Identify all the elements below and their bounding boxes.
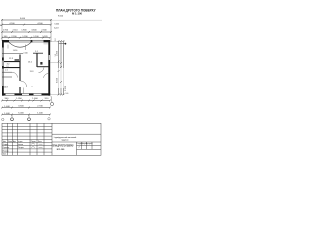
svg-text:3.300: 3.300	[65, 85, 67, 91]
svg-text:2.1: 2.1	[5, 69, 8, 71]
line B ticks	[1, 24, 52, 26]
table row labels	[3, 140, 42, 156]
closet stub line	[23, 88, 25, 94]
svg-text:Аркушів: Аркушів	[86, 142, 92, 145]
line A ticks	[1, 19, 52, 21]
dim text above line D	[4, 36, 49, 38]
svg-text:1.2: 1.2	[55, 39, 57, 42]
partition horizontal y61.5	[4, 61, 20, 62]
door hinge dot	[40, 62, 42, 65]
signature scribbles	[31, 143, 43, 147]
bottom wall pier 3	[29, 93, 34, 95]
axis bubble 2 stem	[28, 115, 30, 118]
right block line under top cell	[52, 133, 101, 135]
stage value underline	[77, 148, 102, 150]
door arc small	[39, 67, 45, 72]
partition vertical x20 lower stub	[19, 87, 20, 93]
svg-text:3.600: 3.600	[31, 30, 37, 32]
bottom wall pier 1	[2, 93, 6, 95]
extension mid from right wall	[50, 61, 60, 63]
axis bubble 1 stem	[11, 115, 13, 118]
svg-text:Підпис: Підпис	[31, 140, 36, 143]
dimension line A	[2, 19, 51, 21]
svg-text:Затв.: Затв.	[3, 154, 8, 156]
top wall pier right	[44, 40, 51, 42]
left wall pier 2	[2, 66, 4, 69]
table row lines left part	[2, 126, 52, 128]
svg-text:1.350: 1.350	[16, 98, 22, 100]
svg-text:будинок: будинок	[61, 139, 68, 141]
fixture line y72.2	[2, 71, 12, 73]
left wall window 3	[1, 69, 3, 87]
door leaf blob	[15, 59, 20, 60]
shelf line y53.5	[2, 53, 23, 55]
axis bubble 0	[2, 118, 4, 120]
svg-text:2.110: 2.110	[23, 52, 27, 54]
dimension line B	[2, 24, 51, 26]
svg-text:Кільк: Кільк	[8, 140, 12, 143]
dimension line C	[2, 31, 51, 33]
arch arc	[9, 42, 31, 47]
line D ticks	[1, 37, 51, 39]
svg-text:6.000: 6.000	[55, 24, 60, 26]
svg-text:6.000: 6.000	[56, 77, 58, 83]
line C ticks	[1, 31, 52, 33]
partition horizontal y66.5	[37, 66, 49, 67]
bottom wall pier 4	[42, 93, 51, 95]
svg-text:ПЛАН ДРУГОГО ПОВЕРХУ: ПЛАН ДРУГОГО ПОВЕРХУ	[53, 145, 74, 148]
title block table	[2, 123, 101, 155]
vertical dim line 1	[58, 41, 60, 68]
svg-text:1.600: 1.600	[32, 98, 38, 100]
svg-text:Перевір.: Перевір.	[3, 146, 10, 149]
line F ticks	[1, 107, 51, 109]
bottom dimension line F	[2, 107, 50, 109]
window label	[7, 45, 9, 49]
dim text above line B	[9, 23, 43, 25]
axis bubble right	[50, 102, 53, 105]
line E ticks	[1, 100, 51, 102]
svg-text:Розроб.: Розроб.	[3, 144, 10, 146]
dim text above line C	[3, 30, 48, 32]
svg-text:9.000: 9.000	[58, 16, 64, 18]
stage header underline	[77, 144, 102, 146]
partition vertical x37	[36, 53, 37, 67]
table column lines left part	[7, 123, 9, 155]
svg-text:Змін: Змін	[3, 140, 7, 143]
vertical dim line 2	[60, 41, 62, 68]
extension to vertical dims top	[50, 41, 65, 43]
svg-text:1.950: 1.950	[3, 30, 9, 32]
bottom dimension line G	[2, 114, 50, 116]
svg-text:—: —	[31, 86, 33, 88]
svg-text:Іванов: Іванов	[18, 144, 23, 146]
right wall window	[48, 55, 50, 60]
svg-text:Арк: Арк	[13, 140, 16, 143]
extension to vertical dims bottom	[50, 94, 65, 96]
svg-text:2.110: 2.110	[12, 30, 18, 32]
svg-text:М 1:100: М 1:100	[72, 12, 83, 15]
svg-text:Дата: Дата	[38, 141, 42, 143]
bottom wall pier 2	[15, 93, 23, 95]
door arc right wall	[44, 74, 49, 78]
axis bubble right stem	[51, 96, 52, 102]
bottom dimension line E	[2, 100, 50, 102]
top wall window double line	[32, 39, 43, 41]
bottom dim text row F	[4, 106, 43, 108]
right block vertical stage	[76, 142, 78, 155]
right wall lower	[48, 60, 50, 96]
svg-text:1.950: 1.950	[56, 50, 58, 56]
left wall pier 1	[2, 58, 4, 61]
svg-text:Н.контр.: Н.контр.	[3, 150, 10, 152]
svg-text:Індивідуальний житловий: Індивідуальний житловий	[54, 136, 76, 139]
left wall upper	[2, 40, 4, 48]
partition horizontal y67.5	[2, 67, 21, 68]
svg-text:№док: №док	[18, 140, 23, 143]
vertical dim ticks	[58, 40, 65, 96]
table outer border	[2, 123, 101, 155]
left wall window 2	[1, 61, 3, 67]
partition horizontal top x36-43	[33, 52, 43, 55]
dimension line D	[2, 37, 50, 39]
partition vertical x20	[19, 55, 20, 82]
bottom wall window 3	[34, 93, 42, 95]
fixture line y77	[2, 76, 12, 78]
top wall arch opening double line	[9, 39, 31, 41]
vertical dim line 3	[62, 41, 64, 68]
extension line left	[1, 19, 3, 41]
left wall window 1	[1, 48, 3, 58]
bottom wall window 2	[22, 93, 29, 95]
axis bubble 1	[11, 118, 14, 121]
door arc partition x20	[21, 81, 27, 87]
leader line with dot	[59, 43, 65, 45]
svg-text:1.800: 1.800	[21, 30, 27, 32]
bottom wall window 1	[6, 93, 15, 95]
right block line under project cell	[52, 141, 101, 143]
svg-text:2.340: 2.340	[41, 30, 47, 32]
dimension line A faint right extension	[51, 19, 102, 21]
top wall pier mid	[31, 40, 33, 42]
left wall lower	[2, 86, 4, 96]
svg-text:Петров: Петров	[18, 147, 24, 149]
arch post right	[25, 45, 27, 51]
svg-text:М 1:100: М 1:100	[57, 149, 65, 151]
extension line right	[50, 19, 52, 42]
svg-text:5.1: 5.1	[35, 51, 38, 53]
leader dot	[65, 43, 67, 45]
axis bubble small right	[48, 118, 50, 120]
top wall pier left	[2, 40, 9, 42]
bottom dim text row G	[4, 113, 43, 115]
line G ticks	[1, 114, 51, 116]
bottom dim text row E	[5, 98, 49, 100]
svg-text:h=2.8: h=2.8	[54, 28, 59, 30]
axis bubble 2	[28, 118, 31, 121]
right wall upper	[48, 40, 50, 55]
door arc bathroom	[12, 72, 18, 77]
window sill right pier	[44, 43, 51, 45]
svg-text:1.490: 1.490	[13, 50, 18, 52]
